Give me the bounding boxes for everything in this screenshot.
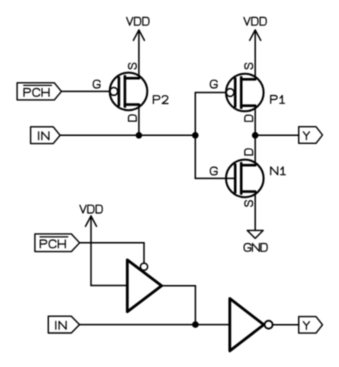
label PCH with overline (top flag) (24, 85, 52, 96)
pin PCH (bottom input flag) (35, 234, 80, 252)
label P1 (271, 96, 285, 104)
wire IN to inverter (80, 324, 230, 326)
pin label G (P1 gate) (210, 80, 217, 88)
wire IN horizontal net (60, 134, 195, 136)
wire buffer output down to IN net (162, 286, 196, 325)
power VDD arrow (bottom buffer) (86, 216, 97, 286)
wire P2 drain down to IN net (138, 105, 140, 136)
transistor P1 (PMOS) (226, 74, 264, 112)
power label VDD (bottom buffer) (80, 205, 102, 213)
label P2 (153, 96, 168, 104)
label GND (244, 244, 267, 252)
wire P1 drain down to Y net (254, 106, 256, 136)
label Y (top flag) (303, 132, 309, 140)
label Y (bottom flag) (303, 322, 309, 330)
wire Y net to output flag (255, 134, 299, 136)
pin label D (P1 drain) (245, 115, 253, 121)
pin label D (N1 drain) (245, 149, 253, 155)
wire PCH to buffer enable bubble (80, 243, 144, 263)
wire PCH to P2 gate (61, 90, 110, 92)
buffer U1 (tri-state, active-low enable) (127, 260, 161, 312)
wire to P1 gate (195, 92, 226, 94)
pin label G (N1 gate) (210, 167, 217, 175)
pin label S (N1 source) (245, 201, 253, 207)
transistor P2 (PMOS) (110, 73, 148, 111)
label N1 (271, 167, 286, 175)
wire VDD to buffer input (91, 285, 127, 287)
pin IN (top input flag) (31, 127, 60, 144)
wire inverter output to Y flag (273, 324, 299, 326)
wire N1 source down to GND (254, 192, 256, 231)
junction dot (buffer output on IN net) (192, 321, 199, 328)
junction dot (IN net to gate column) (192, 132, 199, 139)
power VDD arrow (above P1) (250, 30, 261, 79)
ground symbol (247, 230, 263, 238)
pin Y (top output flag) (299, 127, 323, 144)
pin Y (bottom output flag) (299, 317, 323, 334)
pin PCH (top input flag) (17, 83, 61, 100)
pin label S (P1 source) (245, 63, 253, 69)
junction dot (P1/N1 drains and Y) (252, 132, 259, 139)
wire vertical gate net (194, 93, 196, 179)
power VDD arrow (above P2) (133, 30, 144, 78)
transistor N1 (NMOS) (226, 160, 264, 198)
pin label S (P2 source) (129, 63, 137, 69)
label IN (bottom flag) (56, 321, 66, 329)
pin label D (P2 drain) (129, 115, 137, 121)
power label VDD (above P2) (127, 17, 149, 25)
power label VDD (above P1) (244, 17, 266, 25)
label IN (top flag) (39, 132, 49, 140)
pin label G (P2 gate) (93, 80, 100, 88)
wire to N1 gate (195, 177, 235, 179)
junction dot (P2 drain on IN net) (136, 132, 143, 139)
pin IN (bottom input flag) (48, 316, 79, 333)
wire N1 drain up to Y net (254, 135, 256, 165)
label PCH with overline (bottom flag) (40, 237, 68, 248)
inverter U2 (230, 299, 273, 351)
